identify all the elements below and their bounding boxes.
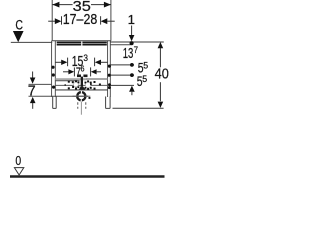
extension line left (x=52.2) [51,0,53,41]
right foot [106,97,111,109]
floor line [10,175,165,178]
traverse lower edge line [55,89,108,91]
dimension 15.3 tail right [101,61,108,63]
frame right rail outer line [109,41,111,97]
drain pipe dashed left [77,102,79,109]
frame top rail black bar upper [57,42,107,44]
frame right rail inner line [107,41,109,97]
frame top rail centre gap [81,41,82,45]
dimension 35 arrowhead left [52,2,59,8]
svg-text:17–28: 17–28 [63,12,98,28]
traverse dot near trap [89,97,91,99]
water fitting cap left [77,75,81,78]
chain line 4 [110,84,134,86]
svg-text:0: 0 [15,153,21,168]
chain up arrowhead [129,86,135,92]
chain dot top [130,41,134,45]
bolt dots around right port [85,80,92,90]
chain line 2 [110,64,134,66]
dimension 40 line upper [159,48,161,67]
water fitting body trapezoid [79,86,86,90]
dimension 17-28 tail right [107,20,115,22]
dimension 17-28 tick right [100,16,102,24]
trap bend horizontal centreline [73,95,91,97]
traverse hole circle left [74,82,79,87]
drain pipe dashed right [85,102,87,109]
chain dot 2 [130,63,134,67]
left rail bolt dots [51,66,55,89]
dimension 7.6 tick right [90,67,92,76]
svg-text:3: 3 [83,53,88,64]
dimension 7.6 arrowhead left [68,69,74,74]
dimension 40 line lower [159,82,161,101]
frame left rail outer line [51,41,53,97]
frame left rail inner line [54,41,56,97]
trap bend ring [77,92,85,100]
callout 1 arrowhead [129,35,135,41]
dimension 15.3 tick right [94,58,96,67]
dimension 17-28 tick left [61,16,63,24]
svg-text:7: 7 [28,83,36,99]
trap vertical centreline [80,102,82,115]
svg-text:5: 5 [143,60,148,70]
dimension 17-28 tail left [48,20,55,22]
dimension 35 line [52,4,111,6]
water fitting cap right [83,75,87,78]
traverse hole circle right [85,82,90,87]
dimension 7.6 tick left [73,67,75,76]
traverse plate dots left cluster [65,81,75,90]
dimension 7 bottom arrow tail [32,103,34,109]
extension line right (x=111.1) [110,0,112,41]
dimension 15.3 arrowhead right [95,60,101,65]
traverse mid line [55,84,108,86]
frame top rail black bar lower [57,44,107,46]
svg-text:C: C [15,18,23,33]
frame bottom extension line [113,107,164,109]
right rail bolt dots [108,65,111,90]
water fitting stem [81,77,83,87]
chain up arrow tail [131,92,133,96]
level line C [11,41,52,43]
left foot [53,97,57,109]
dimension 40 lower arrowhead [158,102,164,108]
top rail bottom extension line [110,44,130,46]
dimension 7 top arrowhead [30,78,36,84]
dimension 17-28 arrowhead right [101,18,108,24]
callout 1 leader [131,26,133,36]
svg-text:5: 5 [142,74,147,84]
level marker C triangle [13,31,24,42]
dimension 15.3 arrowhead left [61,60,67,65]
dimension 17-28 arrowhead left [55,18,62,24]
dimension 7 lower line [29,95,89,97]
traverse top flange band [55,78,86,80]
floor level open triangle [14,168,23,175]
frame top edge line [52,40,111,42]
dimension 35 arrowhead right [104,2,111,8]
traverse plate dots right cluster [90,81,101,90]
svg-text:40: 40 [155,67,169,83]
traverse top flange bottom line [55,80,79,82]
svg-text:6: 6 [81,64,85,74]
traverse top flange band right [86,78,108,80]
dimension 40 upper arrowhead [158,42,164,48]
chain line 3 [110,74,134,76]
bolt dots around left port [75,80,79,89]
svg-text:13: 13 [123,46,134,62]
dimension 7.6 tail left [63,71,69,73]
chain dot 3 [130,73,134,77]
svg-text:1: 1 [128,12,135,27]
dimension 7 upper line [29,83,53,85]
level line right segment [110,41,163,43]
dimension 15.3 tail left [55,61,62,63]
dimension 15.3 tick left [67,58,69,67]
dimension 7.6 arrowhead right [91,69,97,74]
svg-text:7: 7 [134,44,138,55]
dimension 7.6 tail right [97,71,101,73]
dimension 7 bottom arrowhead [30,97,36,103]
dimension 7 top arrow tail [32,72,34,78]
